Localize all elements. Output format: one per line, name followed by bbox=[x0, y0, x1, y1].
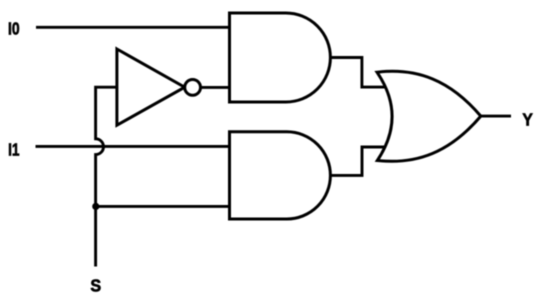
wire junction to AND2 lower input bbox=[96, 205, 231, 208]
wire inverter output to AND1 bbox=[193, 86, 231, 89]
wire I0 input bbox=[36, 26, 231, 29]
svg-text:Y: Y bbox=[522, 110, 533, 130]
and-gate U2 (top) bbox=[230, 13, 331, 102]
svg-text:I0: I0 bbox=[8, 19, 20, 39]
wire AND2 output to OR bottom input bbox=[330, 147, 385, 175]
svg-text:S: S bbox=[90, 276, 101, 296]
wire AND1 output to OR top input bbox=[330, 58, 385, 88]
inverter U1 triangle bbox=[117, 49, 185, 125]
wire S vertical with hop over I1 bbox=[96, 87, 117, 266]
and-gate U3 (bottom) bbox=[230, 132, 331, 219]
or-gate U4 bbox=[377, 71, 481, 161]
inverter U1 bubble bbox=[185, 80, 201, 96]
junction dot S node bbox=[92, 203, 99, 210]
wire I1 input bbox=[36, 145, 232, 148]
wire OR output to Y bbox=[481, 115, 511, 118]
svg-text:I1: I1 bbox=[8, 139, 20, 159]
